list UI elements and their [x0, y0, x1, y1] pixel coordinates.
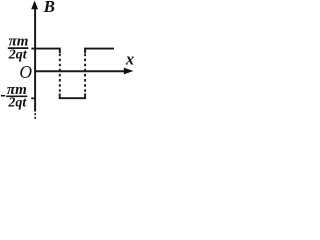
x axis (horizontal): [34, 70, 126, 72]
dashed vertical transition 1: [59, 54, 61, 94]
upper fraction bar: [8, 47, 29, 49]
svg-text:2qt: 2qt: [8, 47, 28, 62]
svg-text:O: O: [19, 62, 32, 82]
B axis arrowhead: [31, 1, 38, 10]
B axis (vertical): [34, 7, 36, 112]
svg-text:B: B: [43, 0, 55, 16]
lower value label: minus sign: [1, 95, 5, 97]
positive level tick and first top segment of square wave: [31, 49, 59, 53]
background: [0, 0, 135, 132]
dashed vertical transition 2: [84, 54, 86, 94]
svg-text:2qt: 2qt: [7, 96, 27, 111]
second top segment of square wave: [85, 49, 114, 53]
axis lower dots: [34, 113, 36, 115]
bottom (negative) segment of square wave with corners: [60, 94, 85, 99]
svg-text:x: x: [125, 50, 134, 69]
lower fraction bar: [6, 95, 27, 97]
x axis arrowhead: [124, 68, 134, 75]
negative level tick on B axis: [31, 97, 36, 99]
